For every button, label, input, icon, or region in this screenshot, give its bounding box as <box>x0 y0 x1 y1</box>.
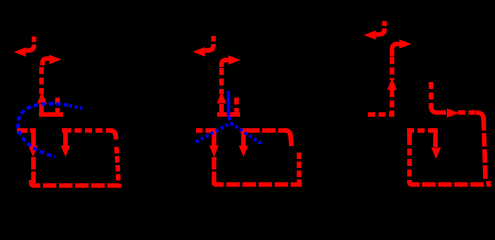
node stub: left horizontal (panel 2) <box>196 128 203 133</box>
wire: left branch with down arrow (panel 2) <box>206 131 219 184</box>
wire: source branch vertical with up arrow (panel 3) <box>387 57 397 113</box>
wire: foot horizontal (panel 2) <box>217 112 240 117</box>
current source I1 arc arrow upper (panel 2), pointing left <box>193 36 214 57</box>
wire: source branch vertical with up arrow (panel 2) <box>217 68 227 113</box>
node A stub: left horizontal into left branch <box>17 128 28 133</box>
wire: lower right vertical (panel 2) <box>297 153 302 183</box>
wire: right side of loop (panel 3) <box>484 117 486 181</box>
blue transformation arc (panel 1) <box>18 104 68 157</box>
wire: hook vertical (panel 2) <box>234 98 239 114</box>
wire: right side of loop 1 <box>110 131 116 140</box>
wire: middle branch down arrow (panel 3) <box>430 131 441 160</box>
wire: top horizontal of loop 1 <box>64 128 113 133</box>
current source I1 arc arrow upper (around source), pointing left <box>14 37 34 57</box>
wire: left branch corner + down current arrow I1 <box>28 131 38 184</box>
blue ray to lower-left (panel 2) <box>196 123 231 142</box>
wire: foot horizontal under source branch <box>39 112 63 117</box>
wire: source branch vertical with up current arrow <box>37 67 47 113</box>
wire: top right branch vertical (panel 3) <box>429 82 434 108</box>
wire: left side of loop (panel 3) <box>407 131 410 184</box>
wire: bottom of loop 1 <box>31 180 119 186</box>
wire: right branch with down arrow (panel 2, through R) <box>239 131 249 158</box>
blue dotted segment to node (panel 2) <box>229 117 231 123</box>
wire: hook vertical right of source branch <box>55 98 60 114</box>
current source arc arrow lower (panel 3), pointing right <box>392 39 411 56</box>
current source I1 arc arrow lower, pointing right <box>43 55 62 66</box>
current source I1 arc arrow lower (panel 2), pointing right <box>222 55 241 67</box>
wire: right corner stub down (panel 2) <box>285 131 292 147</box>
wire: middle branch down arrow (through R1) <box>61 131 71 158</box>
wire: top horizontal of loop (panel 3) <box>407 128 433 133</box>
wire: bottom of loop (panel 2) <box>214 180 300 185</box>
current source arc arrow upper (panel 3), pointing left <box>364 21 385 40</box>
blue node current line vertical (panel 2) <box>227 91 230 117</box>
wire: corner and top horizontal with right arrow (panel 3) <box>431 106 484 119</box>
wire: top right horizontal (panel 2) <box>246 128 288 133</box>
blue ray to lower-right (panel 2) <box>231 123 262 144</box>
wire: foot horizontal going left (panel 3) <box>368 110 392 115</box>
wire: bottom of loop (panel 3) <box>410 180 489 185</box>
